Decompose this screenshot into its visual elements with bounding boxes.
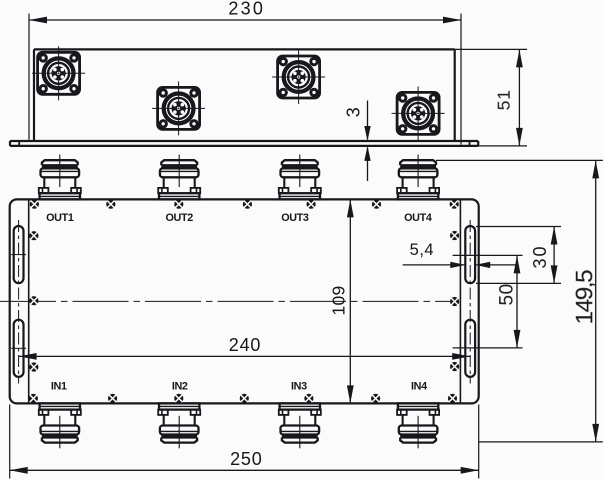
cover screw left 3: [29, 362, 38, 371]
cover screw left 1: [29, 231, 38, 240]
dimension 230 extension lines: [29, 14, 461, 145]
flange connector (side view) port 2: [152, 81, 205, 135]
dimension 30 extension lines: [476, 227, 561, 284]
cover screw bottom 5: [304, 394, 313, 403]
cover screw right 3: [450, 362, 459, 371]
flange connector (side view) port 4: [392, 86, 445, 140]
svg-text:IN1: IN1: [51, 381, 67, 393]
dimension text 230: [228, 0, 265, 18]
dimension 230 line and arrows: [29, 17, 461, 24]
mounting slot right lower: [465, 320, 475, 377]
dimension text 5,4: [410, 241, 434, 259]
cover screw right 1: [450, 231, 459, 240]
svg-text:149,5: 149,5: [572, 270, 599, 325]
label OUT4: [404, 212, 432, 224]
dimension text 50: [497, 283, 518, 305]
dimension 3 line and arrows: [364, 101, 370, 182]
svg-text:OUT4: OUT4: [404, 212, 432, 224]
label OUT3: [281, 212, 309, 224]
svg-text:30: 30: [530, 244, 550, 268]
dimension text 149,5: [572, 270, 599, 325]
horizontal center line: [0, 300, 458, 302]
cover screw bottom 4: [240, 394, 249, 403]
dimension 109 line and arrows: [347, 199, 354, 403]
plan view: inner lid edge left: [28, 199, 30, 403]
label IN4: [411, 381, 427, 393]
connector IN2 (plan view): [158, 403, 200, 448]
svg-text:50: 50: [497, 283, 518, 305]
mounting slot left lower: [11, 320, 26, 377]
svg-text:IN2: IN2: [172, 381, 188, 393]
svg-text:OUT1: OUT1: [46, 212, 74, 224]
svg-text:51: 51: [494, 89, 514, 110]
cover screw bottom 3: [174, 394, 183, 403]
svg-text:240: 240: [229, 335, 261, 355]
svg-text:230: 230: [228, 0, 265, 18]
dimension text 240: [229, 335, 261, 355]
svg-text:OUT2: OUT2: [165, 212, 193, 224]
cover screw bottom 1: [29, 394, 38, 403]
cover screw top 1: [30, 200, 39, 209]
cover screw right 2: [450, 297, 459, 306]
connector OUT4 (plan view): [397, 155, 439, 200]
plan view: inner lid edge right: [459, 199, 461, 403]
dimension text 3: [344, 107, 364, 118]
side view: mounting base plate: [10, 141, 478, 146]
side view: enclosure body outline: [34, 49, 455, 141]
connector OUT1 (plan view): [39, 155, 81, 200]
cover screw top 7: [450, 200, 459, 209]
connector IN3 (plan view): [279, 403, 321, 448]
flange connector (side view) port 3: [272, 50, 325, 104]
dimension 51 extension lines: [455, 49, 527, 145]
connector OUT2 (plan view): [158, 155, 200, 200]
svg-text:IN4: IN4: [411, 381, 427, 393]
cover screw left 2: [29, 296, 38, 305]
dimension text 51: [494, 89, 514, 110]
svg-text:OUT3: OUT3: [281, 212, 309, 224]
label OUT1: [46, 212, 74, 224]
slot center line right: [469, 220, 471, 384]
mounting slot right upper: [465, 226, 475, 283]
cover screw top 2: [106, 200, 115, 209]
svg-text:IN3: IN3: [291, 381, 307, 393]
cover screw top 3: [174, 200, 183, 209]
cover screw top 5: [307, 200, 316, 209]
svg-text:5,4: 5,4: [410, 241, 434, 259]
slot center line left: [18, 220, 20, 384]
dimension text 109: [329, 285, 349, 315]
label IN3: [291, 381, 307, 393]
svg-text:109: 109: [329, 285, 349, 315]
dimension 50 extension lines: [453, 255, 523, 348]
mounting slot left upper: [11, 226, 26, 283]
svg-text:250: 250: [230, 449, 262, 469]
dimension 30 line and arrows: [551, 227, 558, 284]
cover screw bottom 7: [448, 394, 457, 403]
dimension 250 line and arrows: [10, 467, 479, 474]
plan view: enclosure outline: [10, 199, 479, 403]
connector OUT3 (plan view): [279, 155, 321, 200]
label OUT2: [165, 212, 193, 224]
dimension text 250: [230, 449, 262, 469]
cover screw bottom 6: [371, 394, 380, 403]
connector IN1 (plan view): [39, 403, 81, 448]
connector IN4 (plan view): [397, 403, 439, 448]
cover screw bottom 2: [108, 394, 117, 403]
label IN2: [172, 381, 188, 393]
dimension 5,4 lines and arrows: [403, 262, 517, 268]
dimension 250 extension lines: [10, 405, 479, 479]
dimension 50 line and arrows: [514, 255, 521, 348]
flange connector (side view) port 1: [32, 46, 85, 100]
svg-text:3: 3: [344, 107, 364, 118]
dimension 51 line and arrows: [516, 49, 523, 145]
label IN1: [51, 381, 67, 393]
dimension 149,5 line and arrows: [592, 160, 599, 442]
dimension 149,5 extension lines: [436, 160, 603, 442]
dimension text 30: [530, 244, 550, 268]
dimension 240 line and arrows: [19, 353, 471, 360]
cover screw top 4: [243, 200, 252, 209]
cover screw top 6: [372, 200, 381, 209]
